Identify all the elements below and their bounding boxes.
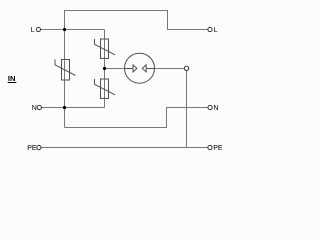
varistor RV3 diagonal [95, 79, 116, 95]
wire top rail L to L-out [65, 11, 208, 30]
gas discharge tube F1 left electrode [125, 65, 137, 72]
svg-text:L: L [214, 27, 218, 34]
terminal PE output [208, 145, 212, 149]
terminal N output [208, 105, 212, 109]
wire left column L to N [64, 30, 66, 128]
label IN underline [8, 82, 17, 84]
terminal L input [36, 27, 40, 31]
junction middle column GDT [103, 67, 106, 70]
wire GDT to node [154, 68, 184, 70]
wire junction to GDT [105, 68, 125, 70]
varistor RV2 body [101, 39, 109, 59]
wire N row [41, 107, 104, 109]
wire right column node to PE [186, 71, 188, 148]
junction L left column [63, 28, 66, 31]
wire PE row [41, 147, 208, 149]
terminal PE input [37, 145, 41, 149]
varistor RV2 diagonal [95, 39, 116, 55]
wire L row [40, 29, 104, 31]
wire middle column [104, 30, 106, 108]
terminal N input [37, 105, 41, 109]
gas discharge tube F1 circle [125, 53, 155, 83]
varistor RV1 body [62, 60, 70, 81]
svg-text:PE: PE [27, 145, 37, 152]
varistor RV3 body [101, 79, 109, 99]
svg-text:PE: PE [213, 145, 223, 152]
gas discharge tube F1 right electrode [142, 65, 154, 72]
terminal L output [208, 27, 212, 31]
svg-text:L: L [31, 27, 35, 34]
svg-text:IN: IN [8, 74, 16, 83]
wire step N to N-out [65, 108, 208, 128]
node disconnect point [184, 66, 188, 70]
varistor RV1 diagonal [55, 60, 76, 76]
svg-text:N: N [213, 105, 218, 112]
junction N left column [63, 106, 66, 109]
svg-text:N: N [32, 105, 37, 112]
